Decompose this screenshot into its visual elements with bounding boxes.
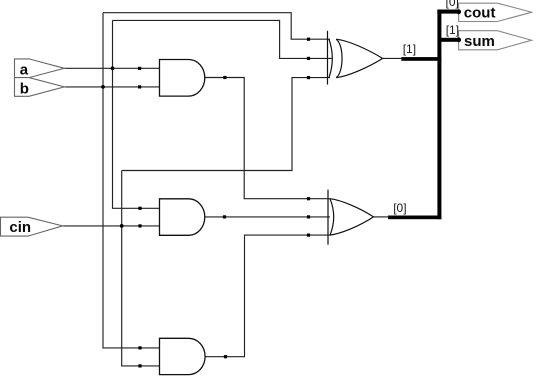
junction b/vertical (101, 85, 105, 89)
pin square U1 input 1 (a) (138, 67, 141, 70)
port cin (1, 217, 63, 236)
XOR gate U4 (sum) (328, 31, 383, 85)
wire b: port b to AND1 input 2 (64, 86, 159, 88)
svg-text:b: b (20, 81, 29, 98)
svg-text:[1]: [1] (446, 23, 459, 37)
svg-text:[0]: [0] (446, 0, 459, 9)
svg-text:cout: cout (464, 4, 496, 21)
wire a branch vertical to AND2 input 1 (113, 20, 160, 208)
pin square U2 output (223, 215, 226, 218)
wire AND1 output to OR input 1 (205, 78, 330, 199)
pin dot sum (456, 37, 461, 42)
bus sum[0] horizontal from OR (388, 216, 441, 220)
port cout (459, 3, 532, 21)
pin square U1 output (223, 76, 226, 79)
wire b branch vertical to AND3 input 1 (103, 13, 160, 348)
pin square U4 input 1 (b) (307, 38, 310, 41)
wire cin branch vertical to AND3 input 2 (122, 171, 160, 366)
wire cin: port cin to AND2 input 2 (63, 225, 160, 227)
pin square U4 input 2 (a) (307, 57, 310, 60)
wire a top horizontal to XOR input 2 (113, 20, 333, 58)
svg-text:[1]: [1] (403, 42, 416, 56)
AND gate U2 (a AND cin) (160, 199, 205, 236)
pin square U1 input 2 (b) (138, 85, 141, 88)
svg-text:a: a (20, 62, 29, 79)
OR gate U5 (cout) (328, 190, 374, 245)
pin square U2 input 1 (a) (138, 207, 141, 210)
svg-text:cin: cin (9, 219, 31, 236)
wire AND3 output to OR input 3 (205, 235, 330, 357)
junction cin/vertical (120, 224, 124, 228)
junction a/vertical (111, 66, 115, 70)
pin square U2 input 2 (cin) (138, 224, 141, 227)
bus sum[1] horizontal from XOR (401, 57, 441, 61)
port sum (459, 31, 532, 50)
svg-text:[0]: [0] (393, 201, 406, 215)
AND gate U1 (a AND b) (160, 60, 205, 97)
pin square U3 input 2 (cin) (138, 364, 141, 367)
pin square U5 input 2 (307, 215, 310, 218)
wire cin branch to XOR input 3 (122, 78, 330, 171)
AND gate U3 (b AND cin) (160, 338, 206, 374)
pin square U3 output (224, 355, 227, 358)
bus vertical trunk (437, 10, 441, 220)
pin square U4 input 3 (cin) (307, 76, 310, 79)
wire OR output (374, 216, 389, 218)
wire a: port a to AND1 input 1 (64, 67, 159, 69)
wire XOR output (383, 57, 402, 59)
pin square U5 input 3 (307, 234, 310, 237)
wire b top horizontal to XOR input 1 (103, 13, 330, 40)
pin square U3 input 1 (b) (138, 346, 141, 349)
port b (15, 78, 65, 97)
pin dot cout (456, 9, 461, 14)
port a (15, 59, 65, 78)
bus stub to sum (439, 38, 461, 42)
svg-text:sum: sum (464, 33, 495, 50)
wire AND2 output to OR input 2 (205, 216, 333, 218)
pin square U5 input 1 (307, 197, 310, 200)
bus stub to cout (437, 10, 460, 14)
